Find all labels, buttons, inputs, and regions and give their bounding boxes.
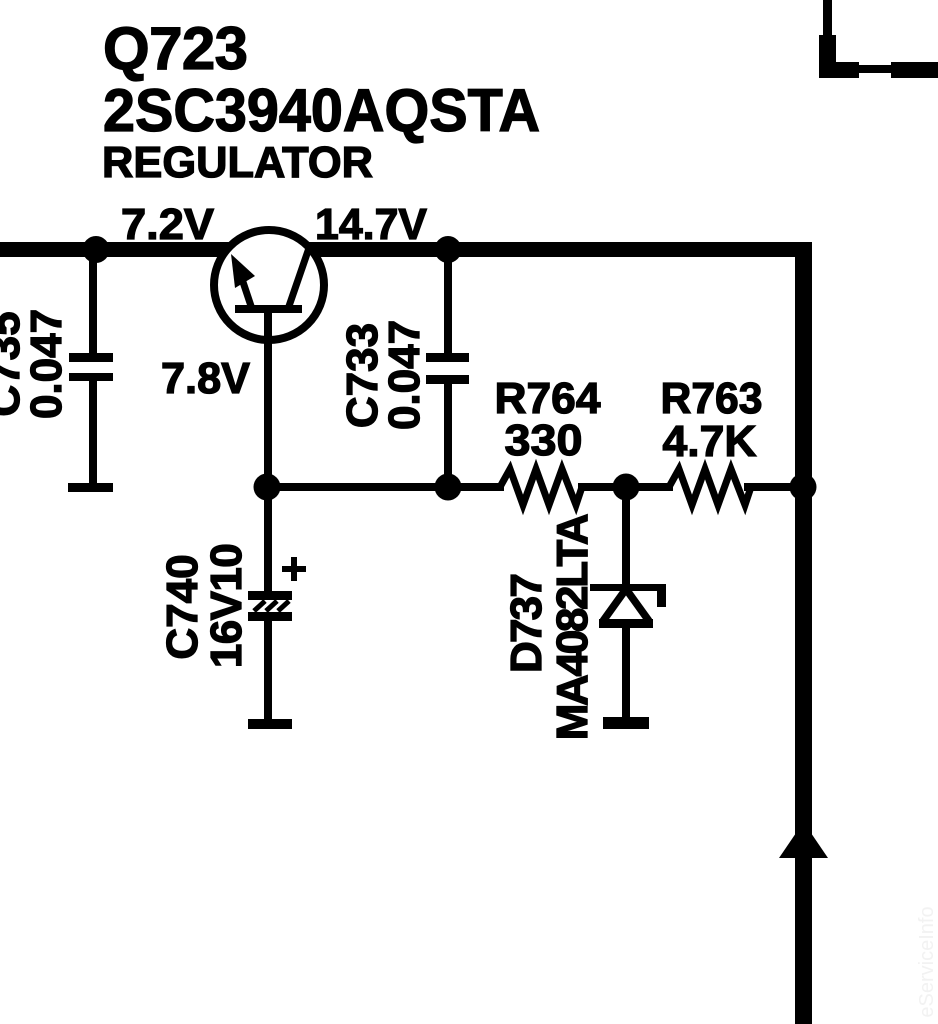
wire: right vertical bus: [795, 242, 812, 1024]
emitter arrowhead: [231, 254, 255, 288]
resistor R764 330: [500, 469, 582, 505]
label C735 value (rotated): [0, 309, 71, 419]
svg-text:2SC3940AQSTA: 2SC3940AQSTA: [103, 77, 540, 144]
svg-text:C740: C740: [158, 554, 207, 659]
svg-text:Q723: Q723: [103, 15, 248, 82]
emitter lead: [241, 276, 252, 309]
node dot: top bus / C735: [83, 236, 110, 263]
node dot: right bus junction: [790, 474, 817, 501]
svg-text:4.7K: 4.7K: [663, 417, 757, 466]
svg-text:MA4082LTA: MA4082LTA: [548, 514, 597, 740]
svg-text:14.7V: 14.7V: [315, 200, 428, 249]
anode triangle: [603, 589, 626, 621]
wire: top-right off-page connector stub: [819, 0, 938, 78]
svg-text:0.047: 0.047: [380, 320, 429, 430]
svg-text:16V10: 16V10: [202, 544, 251, 668]
capacitor C740 16V10 (electrolytic): [248, 487, 306, 729]
svg-text:D737: D737: [502, 575, 551, 673]
wire: 7.8V node horizontal run: [264, 483, 504, 491]
svg-text:7.8V: 7.8V: [161, 354, 251, 403]
cathode bar with hook: [590, 584, 666, 591]
node dot: top bus / C733: [435, 236, 462, 263]
svg-text:330: 330: [505, 416, 583, 465]
plus sign: [282, 566, 306, 572]
arrow: current direction on right bus: [779, 822, 828, 858]
svg-text:R763: R763: [661, 374, 763, 423]
node dot: C733 bottom: [435, 474, 462, 501]
base bar: [235, 305, 302, 313]
node dot: D737 top: [613, 474, 640, 501]
svg-text:eServiceInfo: eServiceInfo: [916, 906, 938, 1017]
label C740 (rotated): [158, 544, 251, 668]
svg-text:0.047: 0.047: [22, 309, 71, 419]
label D737 (rotated): [502, 514, 597, 740]
capacitor C733 0.047: [426, 257, 469, 487]
label C733 (rotated): [338, 320, 429, 430]
resistor R763 4.7K: [669, 469, 751, 505]
collector lead: [288, 248, 309, 309]
svg-text:REGULATOR: REGULATOR: [102, 138, 373, 187]
wire: top horizontal bus 14.7V/7.2V: [0, 242, 812, 257]
node dot: base node: [254, 474, 281, 501]
diode D737 MA4082LTA (zener): [590, 487, 666, 729]
base vertical lead: [264, 309, 272, 487]
transistor Q723: [214, 230, 324, 487]
capacitor C735 0.047 (left, partially cut): [68, 250, 113, 492]
svg-text:7.2V: 7.2V: [121, 200, 215, 249]
